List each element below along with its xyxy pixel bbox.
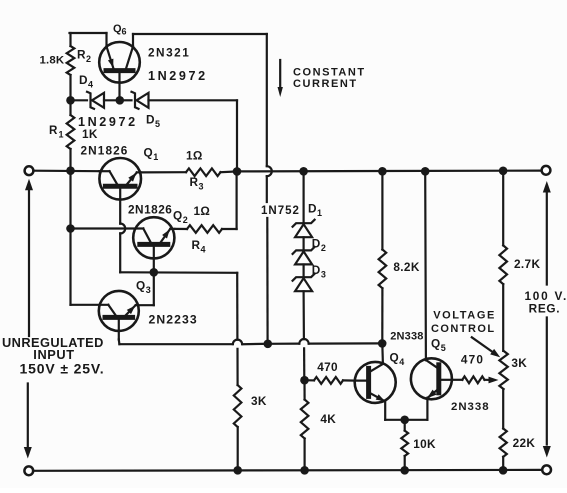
- svg-text:2N338: 2N338: [390, 331, 423, 343]
- svg-text:CURRENT: CURRENT: [293, 78, 358, 90]
- svg-text:2N2233: 2N2233: [149, 313, 198, 327]
- svg-text:10K: 10K: [413, 437, 436, 451]
- svg-text:1N2972: 1N2972: [148, 69, 208, 83]
- svg-text:REG.: REG.: [529, 302, 561, 316]
- svg-text:22K: 22K: [513, 436, 536, 450]
- svg-text:1N752: 1N752: [261, 205, 300, 217]
- svg-text:1: 1: [59, 130, 64, 140]
- svg-text:3K: 3K: [251, 394, 267, 408]
- svg-text:470: 470: [317, 360, 338, 374]
- svg-text:2N1826: 2N1826: [128, 203, 172, 217]
- svg-text:CONSTANT: CONSTANT: [293, 67, 366, 79]
- svg-text:R: R: [49, 124, 58, 137]
- svg-text:8.2K: 8.2K: [393, 260, 419, 274]
- svg-text:2.7K: 2.7K: [514, 257, 540, 271]
- svg-text:2N338: 2N338: [451, 401, 490, 413]
- svg-text:3K: 3K: [511, 356, 527, 370]
- svg-text:4K: 4K: [320, 412, 336, 426]
- svg-text:VOLTAGE: VOLTAGE: [433, 310, 496, 322]
- svg-text:1.8K: 1.8K: [40, 55, 65, 67]
- svg-text:1K: 1K: [82, 127, 98, 141]
- svg-text:1Ω: 1Ω: [186, 149, 203, 163]
- svg-text:470: 470: [461, 353, 484, 367]
- svg-text:CONTROL: CONTROL: [431, 323, 496, 335]
- svg-text:150V ± 25V.: 150V ± 25V.: [20, 361, 105, 377]
- svg-text:2N321: 2N321: [148, 46, 190, 60]
- svg-text:1Ω: 1Ω: [194, 204, 211, 218]
- svg-text:6: 6: [122, 27, 127, 37]
- svg-text:2N1826: 2N1826: [81, 144, 129, 158]
